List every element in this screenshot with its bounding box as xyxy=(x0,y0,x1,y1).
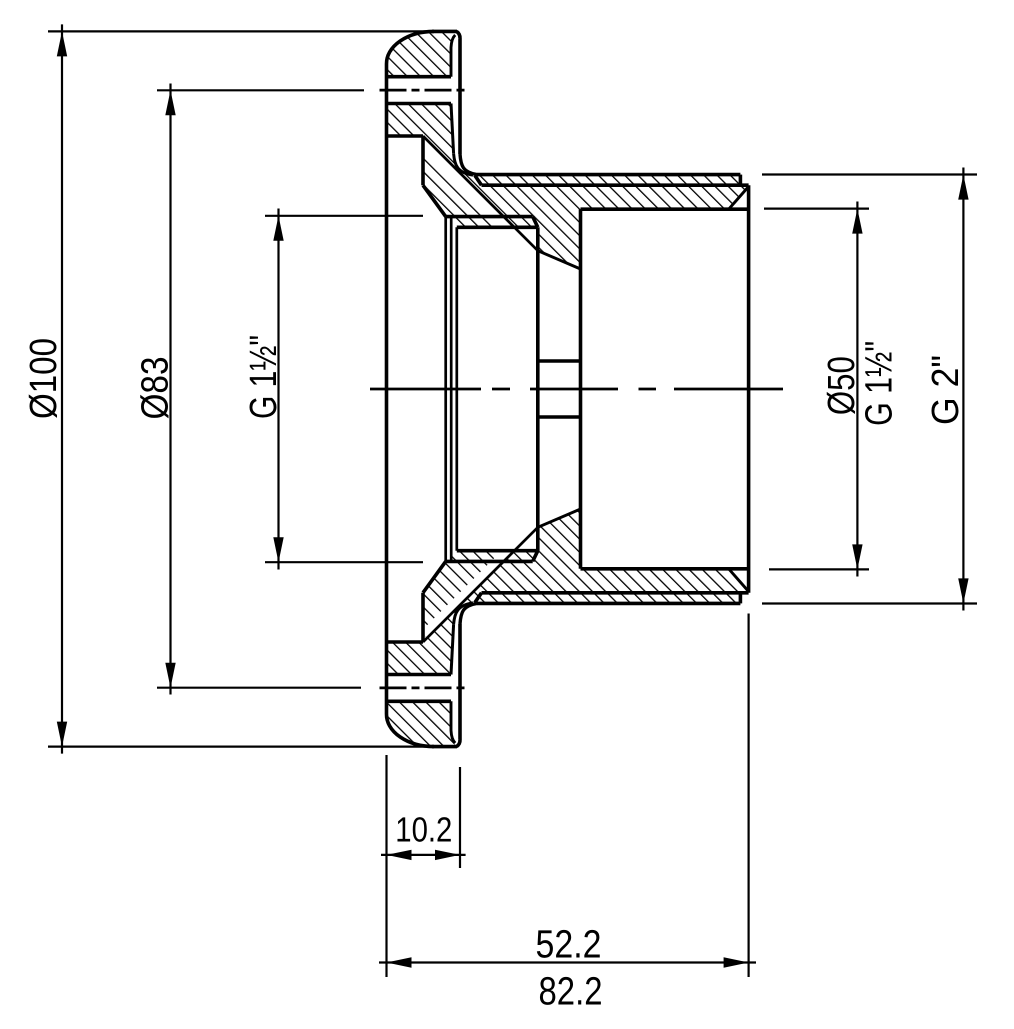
thread start edge circle xyxy=(450,218,453,561)
arrow D83 bottom xyxy=(165,663,175,688)
recess bottom edge xyxy=(387,640,424,644)
flange front face xyxy=(385,64,389,714)
hatch flange rim bottom xyxy=(386,701,457,746)
arrow G2 bottom xyxy=(958,578,968,603)
bolt hole centerline upper xyxy=(380,89,465,92)
arrow 10.2 right xyxy=(435,850,460,860)
recess floor bottom xyxy=(421,593,425,642)
bolt hole centerline lower xyxy=(380,687,465,690)
thread root edge circle xyxy=(455,227,458,550)
dimension line G1.5 left xyxy=(277,209,279,570)
G2 thread crest bottom xyxy=(477,602,740,606)
bore end chamfer top xyxy=(729,187,749,210)
bore entrance chamfer bottom xyxy=(423,561,446,592)
svg-text:82.2: 82.2 xyxy=(538,969,602,1013)
ext line D50 bottom xyxy=(769,568,869,570)
svg-text:52.2: 52.2 xyxy=(535,922,601,966)
G2 crest end step bottom xyxy=(739,593,743,604)
ext line bottom (D100 / flange bottom) xyxy=(48,745,457,747)
recess floor top xyxy=(421,136,425,185)
left thread crest line top xyxy=(446,215,533,219)
flange rear face bottom xyxy=(458,624,462,740)
bore end chamfer bottom xyxy=(729,569,749,592)
recess top edge xyxy=(387,134,424,138)
hatch flange rim top xyxy=(386,31,457,76)
hatch flange web and pipe top xyxy=(387,104,749,270)
arrow D100 top xyxy=(57,31,67,56)
bolt hole bottom edge upper xyxy=(387,102,452,106)
G2 thread runout bottom xyxy=(475,593,482,603)
svg-text:10.2: 10.2 xyxy=(395,810,452,849)
left thread root line top xyxy=(457,226,538,230)
ext line G1.5 top xyxy=(265,215,423,217)
left thread crest line bottom xyxy=(446,560,533,564)
ext line flange rear bottom xyxy=(459,767,461,868)
ext line pipe end bottom xyxy=(747,614,749,978)
arrow D50 top xyxy=(852,209,862,234)
arrow D83 top xyxy=(165,90,175,115)
ext line top (D100 / flange top) xyxy=(48,30,457,32)
flange bottom-left round xyxy=(386,714,434,747)
arrow 10.2 left xyxy=(387,850,412,860)
flange bottom-right corner xyxy=(457,740,461,747)
G2 thread root bottom xyxy=(482,591,749,595)
G2 crest end step top xyxy=(739,175,743,186)
ext line flange front bottom xyxy=(385,755,387,977)
arrow 82.2 right xyxy=(724,957,749,967)
web cone edge top xyxy=(538,251,581,269)
fillet flange-to-pipe top xyxy=(460,154,477,175)
shoulder face xyxy=(579,209,583,569)
arrow G1.5 bottom xyxy=(273,537,283,562)
rim tangent edge mid bottom xyxy=(451,624,454,674)
dimension line G2 xyxy=(962,168,964,611)
fillet tangent edge top xyxy=(454,154,473,176)
arrow 82.2 left xyxy=(387,957,412,967)
web cone edge bottom xyxy=(538,509,581,527)
arrow D100 bottom xyxy=(57,722,67,747)
ext line G1.5 bottom xyxy=(265,561,423,563)
flange bottom edge xyxy=(432,745,457,749)
ext line D83 top xyxy=(157,89,364,91)
pipe end face xyxy=(747,185,751,593)
web face xyxy=(536,227,540,550)
flange rear face top xyxy=(458,39,462,155)
right bore bottom xyxy=(581,567,749,571)
fillet flange-to-pipe bottom xyxy=(460,603,477,624)
center hole top xyxy=(538,359,581,363)
left thread root line bottom xyxy=(457,549,538,553)
cone tangent edge 45deg top xyxy=(423,136,538,251)
ext line D50 top xyxy=(764,208,869,210)
dimension line D100 xyxy=(61,24,63,753)
ext line D83 bottom xyxy=(157,687,361,689)
flange top-left round xyxy=(386,31,434,64)
svg-text:Ø100: Ø100 xyxy=(23,338,65,419)
svg-text:G 1½": G 1½" xyxy=(243,335,285,419)
center hole bottom xyxy=(538,415,581,419)
fillet tangent edge bottom xyxy=(454,603,473,625)
svg-text:Ø83: Ø83 xyxy=(135,357,177,420)
G2 thread root top xyxy=(482,183,749,187)
flange top edge xyxy=(432,30,457,34)
centerline segment xyxy=(492,388,510,391)
svg-text:G 1½": G 1½" xyxy=(859,341,901,426)
chamfer edge circle xyxy=(444,217,447,562)
dimension line 52.2/82.2 xyxy=(379,961,756,963)
right bore top xyxy=(581,207,749,211)
centerline segment xyxy=(530,388,618,391)
centerline segment xyxy=(370,388,481,391)
ext line G2 bottom xyxy=(762,602,977,604)
G2 thread crest top xyxy=(477,173,740,177)
left thread end chamfer bottom xyxy=(533,551,538,562)
bolt hole top edge lower xyxy=(387,699,452,703)
bolt hole top edge upper xyxy=(387,75,452,79)
arrow D50 bottom xyxy=(852,544,862,569)
cone tangent edge 45deg bottom xyxy=(423,527,538,642)
centerline segment xyxy=(674,388,783,391)
svg-text:G 2": G 2" xyxy=(925,355,967,425)
bolt hole bottom edge lower xyxy=(387,673,452,677)
svg-text:Ø50: Ø50 xyxy=(821,356,863,415)
dimension line D83 xyxy=(169,84,171,695)
G2 thread runout top xyxy=(475,175,482,185)
left thread end chamfer top xyxy=(533,217,538,228)
rim tangent edge bottom xyxy=(451,701,455,743)
centerline segment xyxy=(639,388,657,391)
dimension line D50 xyxy=(856,202,858,577)
arrow G2 top xyxy=(958,175,968,200)
rim tangent edge mid top xyxy=(451,104,454,154)
rim tangent edge top xyxy=(451,35,455,77)
dimension line 10.2 xyxy=(381,854,466,856)
flange top-right corner xyxy=(457,31,461,38)
bore entrance chamfer top xyxy=(423,185,446,216)
hatch flange web and pipe bottom xyxy=(387,509,749,675)
ext line G2 top xyxy=(762,173,977,175)
arrow G1.5 top xyxy=(273,216,283,241)
